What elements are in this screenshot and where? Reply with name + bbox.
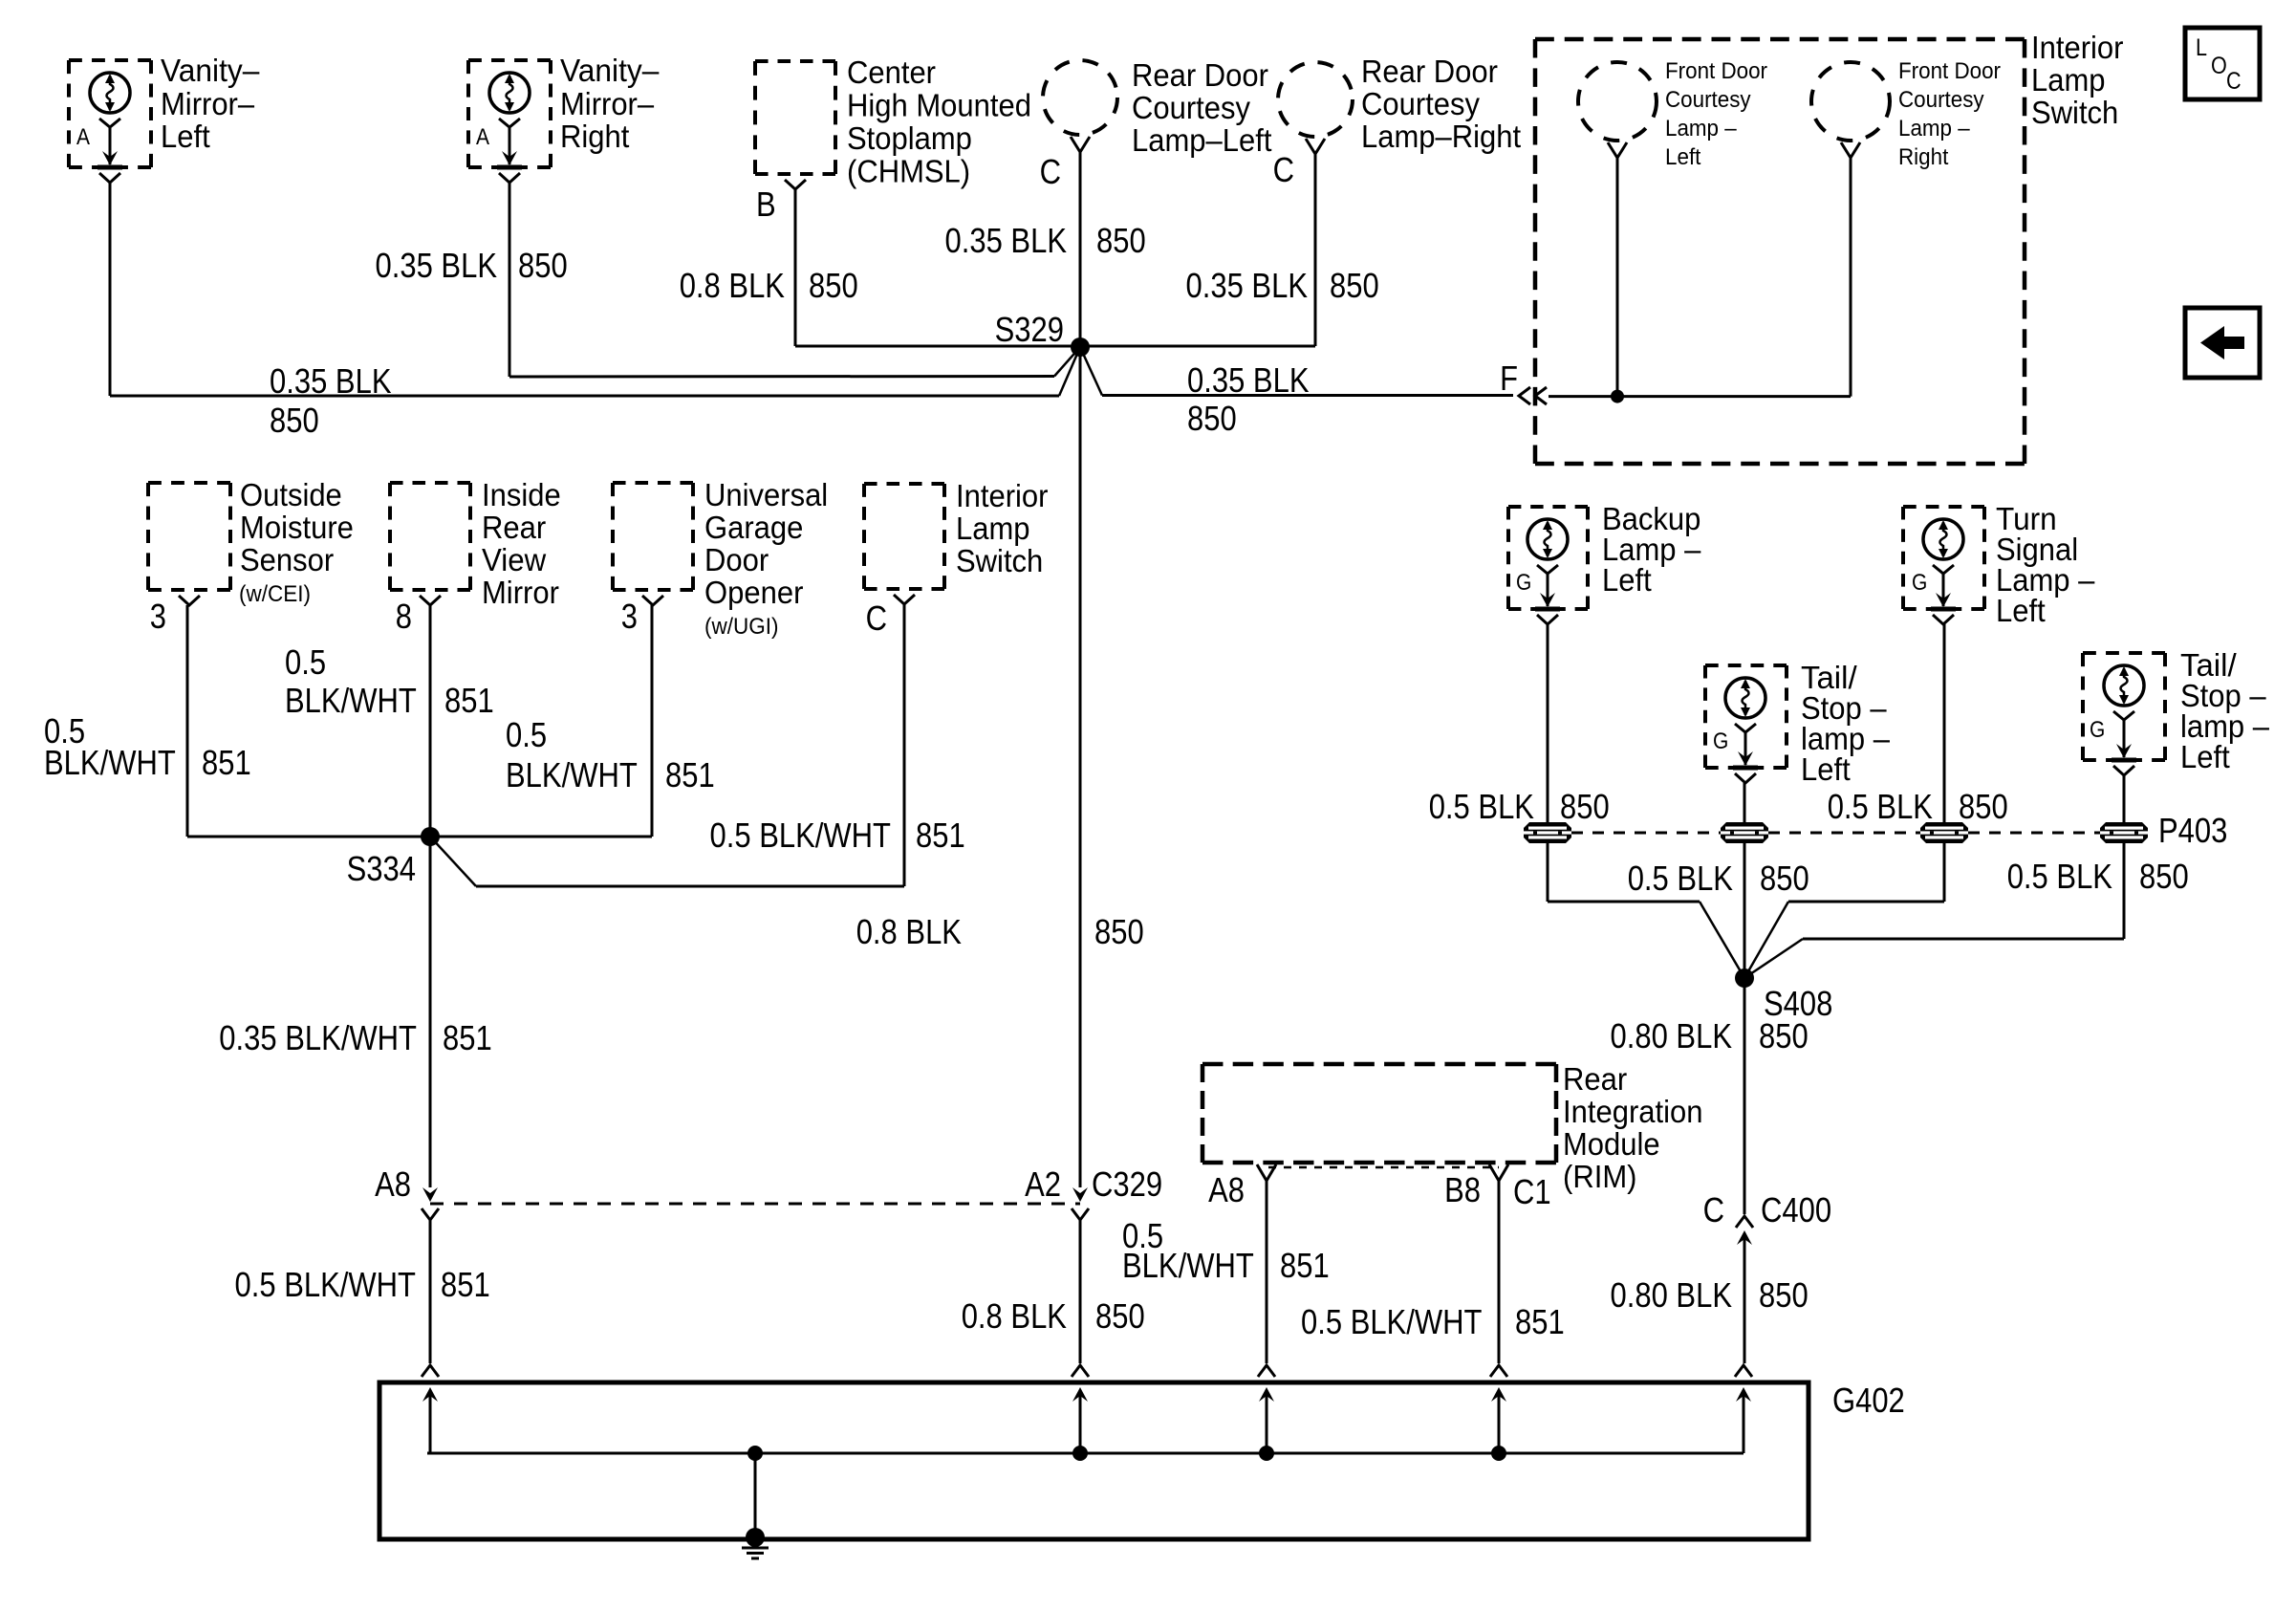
svg-text:0.5 BLK/WHT: 0.5 BLK/WHT bbox=[1301, 1302, 1483, 1341]
svg-text:C: C bbox=[866, 598, 887, 638]
svg-text:BLK/WHT: BLK/WHT bbox=[285, 681, 417, 720]
svg-text:O: O bbox=[2211, 53, 2227, 79]
svg-text:0.5 BLK: 0.5 BLK bbox=[1828, 787, 1933, 826]
svg-text:Switch: Switch bbox=[2031, 95, 2118, 130]
svg-text:L: L bbox=[2196, 34, 2207, 61]
svg-text:0.5 BLK: 0.5 BLK bbox=[1429, 787, 1534, 826]
svg-text:Courtesy: Courtesy bbox=[1132, 90, 1250, 125]
svg-text:A: A bbox=[476, 124, 489, 150]
svg-text:850: 850 bbox=[1095, 1296, 1145, 1336]
svg-text:851: 851 bbox=[916, 816, 965, 855]
svg-text:(RIM): (RIM) bbox=[1563, 1159, 1637, 1194]
svg-text:C: C bbox=[1273, 150, 1294, 189]
svg-text:Lamp: Lamp bbox=[956, 511, 1030, 546]
svg-text:A: A bbox=[76, 124, 90, 150]
svg-text:Courtesy: Courtesy bbox=[1665, 87, 1751, 113]
svg-text:851: 851 bbox=[665, 755, 715, 794]
svg-text:850: 850 bbox=[518, 246, 568, 285]
svg-text:Integration: Integration bbox=[1563, 1094, 1703, 1129]
svg-text:850: 850 bbox=[1959, 787, 2008, 826]
svg-text:Sensor: Sensor bbox=[240, 542, 334, 577]
svg-text:Mirror–: Mirror– bbox=[161, 86, 255, 121]
svg-text:0.8 BLK: 0.8 BLK bbox=[962, 1296, 1067, 1336]
svg-text:0.5 BLK/WHT: 0.5 BLK/WHT bbox=[235, 1265, 417, 1304]
svg-text:850: 850 bbox=[1094, 912, 1144, 951]
svg-text:851: 851 bbox=[444, 681, 494, 720]
svg-text:(w/UGI): (w/UGI) bbox=[704, 614, 779, 640]
svg-text:C: C bbox=[1040, 152, 1061, 191]
svg-text:8: 8 bbox=[396, 597, 412, 636]
svg-text:(CHMSL): (CHMSL) bbox=[847, 154, 970, 189]
svg-text:Courtesy: Courtesy bbox=[1898, 87, 1984, 113]
svg-text:0.8 BLK: 0.8 BLK bbox=[856, 912, 962, 951]
svg-text:Left: Left bbox=[1996, 593, 2046, 628]
svg-text:0.35 BLK: 0.35 BLK bbox=[376, 246, 498, 285]
svg-text:0.5 BLK/WHT: 0.5 BLK/WHT bbox=[710, 816, 892, 855]
svg-text:Courtesy: Courtesy bbox=[1361, 86, 1480, 121]
svg-text:0.35 BLK: 0.35 BLK bbox=[270, 361, 392, 401]
svg-text:Left: Left bbox=[161, 119, 210, 154]
svg-text:Universal: Universal bbox=[704, 477, 828, 512]
svg-text:850: 850 bbox=[1096, 221, 1146, 260]
svg-text:A2: A2 bbox=[1025, 1164, 1061, 1204]
svg-text:Left: Left bbox=[1602, 562, 1652, 598]
svg-text:A8: A8 bbox=[1208, 1170, 1245, 1209]
svg-text:Lamp: Lamp bbox=[2031, 62, 2106, 98]
svg-text:Moisture: Moisture bbox=[240, 510, 354, 545]
svg-text:High Mounted: High Mounted bbox=[847, 88, 1031, 123]
svg-text:Garage: Garage bbox=[704, 510, 803, 545]
svg-text:G: G bbox=[2090, 717, 2105, 743]
svg-text:Stoplamp: Stoplamp bbox=[847, 120, 972, 156]
svg-text:Lamp –: Lamp – bbox=[1665, 116, 1737, 141]
svg-text:G402: G402 bbox=[1832, 1381, 1905, 1420]
svg-text:851: 851 bbox=[1280, 1246, 1330, 1285]
svg-text:851: 851 bbox=[443, 1018, 492, 1057]
svg-text:Rear Door: Rear Door bbox=[1361, 54, 1498, 89]
svg-text:P403: P403 bbox=[2158, 811, 2227, 850]
svg-text:850: 850 bbox=[1330, 266, 1379, 305]
svg-text:BLK/WHT: BLK/WHT bbox=[1122, 1246, 1254, 1285]
svg-text:Lamp–Left: Lamp–Left bbox=[1132, 122, 1272, 158]
svg-text:0.5: 0.5 bbox=[506, 715, 547, 754]
svg-text:0.35 BLK: 0.35 BLK bbox=[1186, 266, 1309, 305]
svg-text:850: 850 bbox=[809, 266, 858, 305]
svg-text:Left: Left bbox=[1801, 751, 1851, 787]
svg-text:0.35 BLK: 0.35 BLK bbox=[1187, 360, 1310, 400]
svg-text:C400: C400 bbox=[1761, 1190, 1831, 1229]
svg-text:0.5 BLK: 0.5 BLK bbox=[1628, 859, 1733, 898]
svg-text:Left: Left bbox=[2180, 739, 2230, 774]
svg-text:F: F bbox=[1500, 359, 1518, 398]
svg-text:851: 851 bbox=[441, 1265, 490, 1304]
svg-text:Left: Left bbox=[1665, 144, 1701, 170]
svg-text:Mirror–: Mirror– bbox=[560, 86, 655, 121]
svg-text:C: C bbox=[2226, 68, 2242, 95]
svg-text:Vanity–: Vanity– bbox=[161, 53, 260, 88]
svg-text:851: 851 bbox=[202, 743, 251, 782]
svg-text:Door: Door bbox=[704, 542, 769, 577]
svg-text:Center: Center bbox=[847, 54, 936, 90]
svg-text:850: 850 bbox=[1560, 787, 1610, 826]
svg-text:Mirror: Mirror bbox=[482, 575, 559, 610]
svg-text:0.35 BLK: 0.35 BLK bbox=[945, 221, 1068, 260]
svg-text:S329: S329 bbox=[995, 310, 1064, 349]
svg-text:G: G bbox=[1713, 729, 1728, 754]
svg-text:C: C bbox=[1703, 1190, 1724, 1229]
svg-text:BLK/WHT: BLK/WHT bbox=[44, 743, 176, 782]
svg-text:Right: Right bbox=[1898, 144, 1949, 170]
svg-text:View: View bbox=[482, 542, 546, 577]
svg-text:C329: C329 bbox=[1092, 1164, 1162, 1204]
svg-text:851: 851 bbox=[1515, 1302, 1565, 1341]
svg-text:Lamp–Right: Lamp–Right bbox=[1361, 119, 1521, 154]
svg-text:850: 850 bbox=[1759, 1016, 1809, 1055]
svg-text:850: 850 bbox=[1760, 859, 1809, 898]
svg-text:Rear: Rear bbox=[1563, 1061, 1627, 1097]
svg-text:Rear: Rear bbox=[482, 510, 546, 545]
svg-text:0.80 BLK: 0.80 BLK bbox=[1611, 1275, 1733, 1315]
svg-text:(w/CEI): (w/CEI) bbox=[239, 581, 311, 607]
svg-text:0.8 BLK: 0.8 BLK bbox=[680, 266, 785, 305]
svg-text:Interior: Interior bbox=[2031, 30, 2124, 65]
svg-text:Inside: Inside bbox=[482, 477, 561, 512]
svg-text:Front Door: Front Door bbox=[1898, 58, 2001, 84]
svg-text:Switch: Switch bbox=[956, 543, 1043, 578]
svg-text:3: 3 bbox=[150, 597, 166, 636]
svg-text:B8: B8 bbox=[1444, 1170, 1481, 1209]
svg-text:0.80 BLK: 0.80 BLK bbox=[1611, 1016, 1733, 1055]
svg-text:BLK/WHT: BLK/WHT bbox=[506, 755, 638, 794]
svg-text:Front Door: Front Door bbox=[1665, 58, 1767, 84]
svg-text:Module: Module bbox=[1563, 1126, 1660, 1162]
svg-text:Vanity–: Vanity– bbox=[560, 53, 660, 88]
svg-text:S334: S334 bbox=[347, 849, 416, 888]
svg-text:Lamp –: Lamp – bbox=[1898, 116, 1970, 141]
svg-text:Opener: Opener bbox=[704, 575, 803, 610]
svg-text:850: 850 bbox=[270, 401, 319, 440]
svg-text:0.5 BLK: 0.5 BLK bbox=[2007, 857, 2112, 896]
svg-text:B: B bbox=[756, 185, 776, 224]
svg-text:G: G bbox=[1516, 570, 1531, 596]
svg-text:Rear Door: Rear Door bbox=[1132, 57, 1268, 93]
svg-text:C1: C1 bbox=[1513, 1172, 1551, 1211]
svg-text:A8: A8 bbox=[375, 1164, 411, 1204]
svg-text:850: 850 bbox=[2139, 857, 2189, 896]
svg-text:Right: Right bbox=[560, 119, 629, 154]
svg-text:3: 3 bbox=[621, 597, 638, 636]
svg-text:0.5: 0.5 bbox=[285, 642, 326, 682]
svg-text:0.35 BLK/WHT: 0.35 BLK/WHT bbox=[219, 1018, 417, 1057]
svg-text:G: G bbox=[1912, 570, 1927, 596]
svg-text:850: 850 bbox=[1187, 399, 1237, 438]
svg-text:Interior: Interior bbox=[956, 478, 1049, 513]
svg-text:Outside: Outside bbox=[240, 477, 342, 512]
svg-text:850: 850 bbox=[1759, 1275, 1809, 1315]
